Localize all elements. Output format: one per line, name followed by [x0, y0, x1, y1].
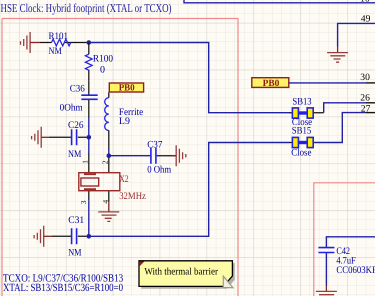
resistor R101 [40, 31, 87, 57]
svg-text:C26: C26 [68, 120, 84, 131]
solder bridge SB15 [289, 126, 313, 159]
svg-text:CC0603KRX7R: CC0603KRX7R [336, 265, 375, 276]
svg-text:HSE Clock: Hybrid footprint (X: HSE Clock: Hybrid footprint (XTAL or TCX… [1, 1, 172, 15]
svg-text:32MHz: 32MHz [119, 191, 146, 202]
capacitor C37 [147, 139, 176, 175]
wire from node to SB13 [89, 43, 290, 113]
svg-text:R100: R100 [93, 54, 113, 65]
capacitor C31 [51, 215, 86, 259]
text XTAL note [3, 282, 123, 294]
svg-text:NM: NM [68, 248, 81, 259]
junction node (L9/C37/X2 pin2) [107, 153, 112, 158]
svg-text:NM: NM [49, 46, 62, 57]
net label PB0 (left) [109, 83, 144, 98]
svg-text:X2: X2 [119, 174, 129, 185]
wire L9 node to C37 [109, 155, 151, 157]
svg-text:1: 1 [80, 160, 89, 164]
inductor L9 (ferrite) [105, 98, 144, 156]
pin label 16 (clipped) [360, 0, 370, 5]
svg-text:30: 30 [360, 72, 370, 83]
junction node (C31/X2 pin3) [87, 234, 92, 239]
svg-text:NM: NM [68, 149, 81, 160]
wire top net (pin 16) [184, 0, 375, 3]
svg-text:C31: C31 [68, 215, 84, 226]
pin label 30 [360, 72, 370, 83]
junction node (C26/X2 pin1) [87, 135, 92, 140]
ground (left of C26) [32, 127, 49, 148]
wire bottom net to SB15 [89, 143, 290, 237]
svg-text:C36: C36 [70, 83, 85, 94]
resistor R100 [85, 43, 113, 81]
text TCXO note [3, 272, 124, 284]
power ground (C42, clipped) [316, 286, 337, 295]
svg-text:0: 0 [100, 64, 105, 75]
wire pin 27 to SB15 [313, 113, 375, 143]
pin label 27 [361, 103, 371, 114]
svg-text:L9: L9 [119, 116, 130, 127]
svg-text:R101: R101 [49, 31, 69, 42]
ground (below X2 pin 4) [98, 202, 119, 221]
pin label 26 [360, 92, 370, 103]
svg-text:XTAL: SB13/SB15/C36=R100=0: XTAL: SB13/SB15/C36=R100=0 [3, 282, 123, 294]
svg-text:PB0: PB0 [119, 83, 135, 94]
capacitor C26 [49, 120, 87, 160]
svg-text:With thermal barrier: With thermal barrier [144, 267, 218, 278]
ground (pin 49) [327, 47, 348, 63]
svg-text:16: 16 [360, 0, 370, 5]
wire SB13 to pin 26 [324, 103, 375, 113]
svg-text:0 Ohm: 0 Ohm [147, 165, 171, 176]
title text [1, 1, 172, 15]
ground (left of C31) [34, 226, 51, 247]
crystal X2 [79, 137, 147, 236]
junction node (R101/R100) [87, 40, 92, 45]
svg-text:SB13: SB13 [292, 96, 311, 107]
svg-text:0Ohm: 0Ohm [60, 102, 83, 113]
capacitor C42 [318, 237, 375, 286]
ground (right of C37) [172, 145, 186, 166]
net label PB0 (right) [252, 78, 289, 89]
svg-text:26: 26 [360, 92, 370, 103]
svg-text:PB0: PB0 [263, 78, 280, 89]
capacitor C36 [60, 81, 98, 138]
note: With thermal barrier [139, 261, 235, 289]
svg-text:SB15: SB15 [292, 126, 312, 137]
svg-text:Close: Close [291, 147, 312, 158]
ground (left of R101) [21, 32, 41, 53]
svg-text:2: 2 [101, 160, 110, 164]
region outline 2 [314, 183, 375, 296]
region outline 1 [2, 19, 238, 296]
wire pin 49 [338, 23, 375, 46]
svg-text:C37: C37 [147, 139, 162, 150]
wire PB0 to pin 30 [289, 82, 375, 84]
pin label 49 [361, 14, 371, 25]
svg-text:3: 3 [79, 200, 88, 204]
solder bridge SB13 [289, 96, 324, 128]
